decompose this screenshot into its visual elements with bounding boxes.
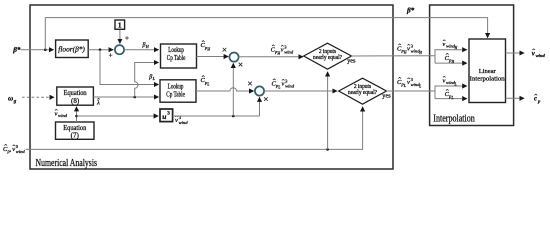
label v_wind_H	[443, 40, 458, 50]
block Linear Interpolation	[469, 39, 506, 103]
svg-text:λ: λ	[96, 100, 100, 107]
block Equation (8)	[57, 87, 94, 105]
wire branch up into diamond H	[327, 72, 329, 149]
sum junction circle	[109, 36, 129, 57]
wire diamond L yes output to interpolation	[387, 77, 436, 91]
svg-text:L: L	[206, 82, 209, 86]
svg-text:1: 1	[118, 21, 122, 30]
wire 1 to sum	[119, 30, 121, 44]
node split L inside interpolation	[435, 86, 467, 99]
wire Eq7 output up into Eq8	[75, 107, 78, 122]
svg-text:(7): (7)	[71, 131, 80, 139]
svg-text:c: c	[534, 96, 537, 103]
svg-text:wind: wind	[536, 53, 546, 58]
label v_wind node	[55, 109, 68, 118]
wire up into product H	[232, 63, 234, 116]
svg-text:L: L	[454, 83, 457, 87]
label omega_g input	[8, 94, 17, 104]
block floor(beta*)	[56, 40, 89, 58]
svg-text:wind: wind	[58, 113, 68, 118]
svg-text:v: v	[282, 80, 285, 87]
wire bottom feedback Cp v0_wind	[26, 107, 363, 151]
wire omega_g dashed	[22, 96, 54, 98]
svg-text:β*: β*	[406, 7, 415, 15]
svg-text:Equation: Equation	[64, 89, 87, 97]
wire beta_L branch	[100, 50, 159, 85]
wire up into product L	[259, 97, 261, 116]
svg-text:Cp Table: Cp Table	[166, 92, 185, 99]
svg-text:Interpolation: Interpolation	[470, 76, 506, 83]
svg-text:L: L	[403, 84, 406, 88]
wire u3 output to multipliers	[173, 115, 260, 118]
svg-text:Lookup: Lookup	[168, 47, 184, 54]
node split H inside interpolation	[435, 50, 467, 63]
svg-text:H: H	[454, 46, 458, 50]
svg-text:v: v	[281, 46, 284, 53]
svg-text:(8): (8)	[71, 97, 80, 105]
wire lambda branch up to Lookup H (with hop)	[135, 63, 159, 98]
svg-text:ω: ω	[8, 94, 13, 102]
svg-text:L: L	[418, 85, 421, 89]
block Equation (7)	[56, 122, 95, 139]
svg-text:g: g	[13, 99, 17, 104]
wire v_wind to u3 block	[77, 115, 159, 117]
wire output Cp	[506, 94, 542, 103]
svg-text:Linear: Linear	[479, 68, 497, 75]
wire floor output to sum	[88, 48, 113, 51]
svg-text:nearly equal?: nearly equal?	[313, 55, 342, 61]
wire product H to diamond H	[239, 45, 303, 57]
block Lookup Cp Table (H)	[161, 44, 197, 68]
decision diamond H: 2 inputs nearly equal?	[304, 43, 352, 69]
wire sum output beta_H	[124, 43, 158, 50]
svg-text:v: v	[12, 146, 15, 153]
svg-text:v: v	[407, 79, 410, 86]
svg-text:u: u	[162, 112, 166, 121]
svg-text:Lookup: Lookup	[168, 84, 184, 91]
block Lookup Cp Table (L)	[160, 80, 196, 102]
wire beta* input	[21, 48, 54, 51]
block u^3	[160, 109, 173, 122]
svg-text:H: H	[451, 60, 455, 64]
svg-text:wind: wind	[285, 84, 295, 89]
svg-text:v: v	[175, 117, 178, 124]
label v_wind_L	[443, 76, 457, 86]
svg-text:H: H	[418, 51, 422, 55]
product circle H	[223, 48, 243, 66]
wire diamond H yes output to interpolation	[352, 44, 436, 56]
product circle L	[248, 82, 268, 101]
svg-text:Cp Table: Cp Table	[167, 55, 186, 62]
svg-text:Numerical Analysis: Numerical Analysis	[36, 158, 98, 169]
decision diamond L: 2 inputs nearly equal?	[339, 78, 387, 104]
svg-text:β*: β*	[12, 46, 21, 54]
label Cp_H (interp)	[445, 53, 455, 64]
svg-text:wind: wind	[16, 149, 26, 154]
wire Lookup L output Cp_L (with hop over vertical)	[196, 76, 254, 91]
wire lambda output of Eq8	[93, 96, 158, 107]
svg-text:Interpolation: Interpolation	[433, 114, 475, 125]
block constant 1	[115, 20, 125, 30]
svg-text:yes: yes	[347, 58, 356, 65]
svg-text:yes: yes	[382, 93, 391, 100]
wire beta* feedback to interpolation	[45, 18, 487, 50]
box Interpolation	[430, 5, 514, 126]
label Cp, v0_wind input	[3, 144, 25, 154]
svg-text:L: L	[451, 96, 454, 100]
svg-text:H: H	[206, 47, 210, 51]
outer box Numerical Analysis	[30, 5, 393, 169]
svg-text:3: 3	[167, 111, 170, 117]
label v^3_wind	[175, 115, 188, 125]
label Cp_L (interp)	[445, 89, 454, 100]
svg-text:wind: wind	[179, 120, 189, 125]
svg-text:L: L	[277, 86, 280, 90]
svg-text:v: v	[407, 45, 410, 52]
wire Lookup H output Cp_H	[197, 41, 229, 57]
wire output v_wind	[506, 49, 546, 58]
svg-text:wind: wind	[284, 50, 294, 55]
svg-text:floor(β*): floor(β*)	[58, 44, 85, 53]
wire product L to diamond L	[264, 79, 337, 91]
svg-text:nearly equal?: nearly equal?	[348, 90, 377, 96]
